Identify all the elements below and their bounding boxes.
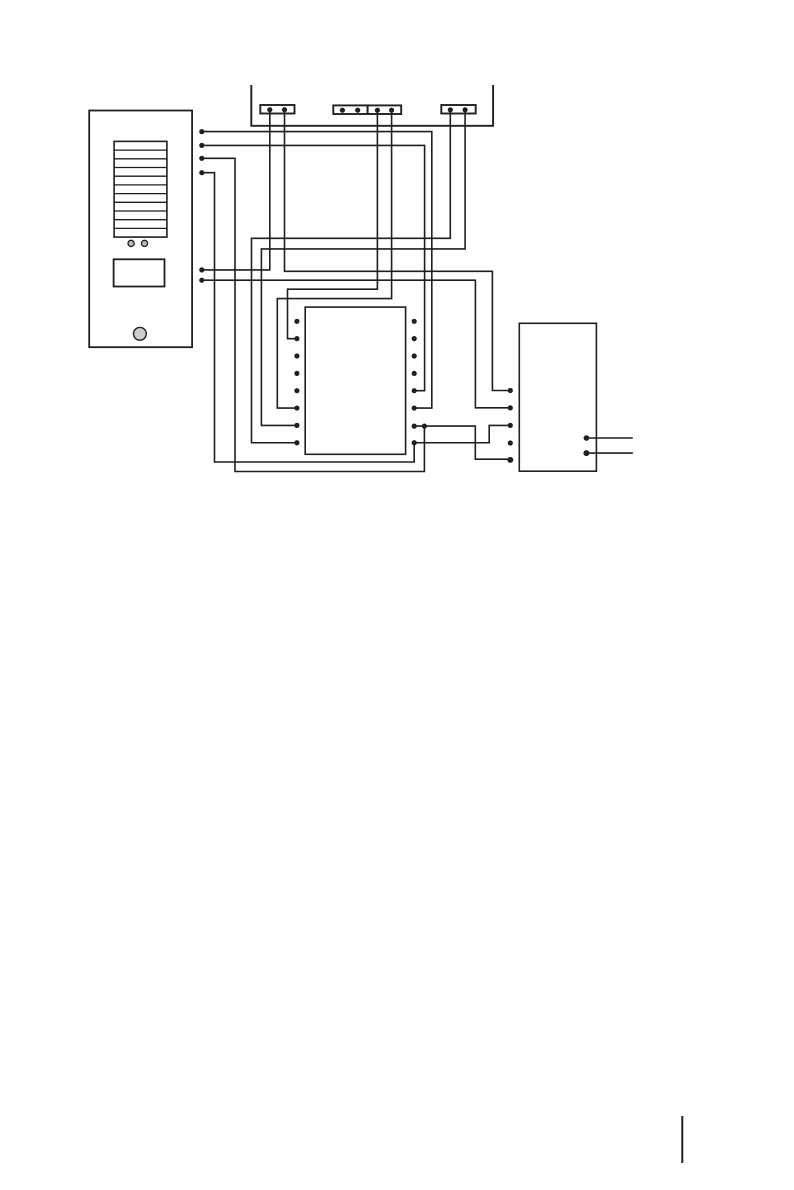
monitor interface box U1 bbox=[305, 307, 405, 454]
U2 pin L2 bbox=[508, 405, 513, 410]
riser enclosure bracket (open-top) bbox=[251, 86, 493, 126]
wire TB2 pin3 to U1 pin L2 bbox=[288, 110, 378, 339]
U2 pin L5 bbox=[507, 457, 513, 463]
grille slots bbox=[114, 150, 167, 228]
U2 pin L1 bbox=[508, 388, 513, 393]
U1 pin L3 bbox=[294, 353, 299, 358]
TB2 pin 3 bbox=[375, 108, 380, 113]
TB1 pin 1 bbox=[267, 107, 272, 112]
wire door pin5 to TB1 pin1 bbox=[202, 110, 270, 270]
wire U2 output pin R2 bbox=[586, 452, 632, 454]
U1 pin R6 bbox=[412, 405, 417, 410]
terminal strip TB2 (right half) bbox=[368, 105, 402, 114]
terminal strip TB1 bbox=[260, 105, 294, 114]
door pin 2 bbox=[199, 143, 204, 148]
wire door pin1 to U1 pin R6 bbox=[202, 132, 432, 408]
LED indicator right bbox=[141, 240, 147, 246]
TB1 pin 2 bbox=[282, 107, 287, 112]
TB3 pin 1 bbox=[448, 107, 453, 112]
wire junction to U2 pin L5 bbox=[424, 426, 510, 459]
door pin 4 bbox=[199, 170, 204, 175]
TB2 pin 4 bbox=[389, 108, 394, 113]
LED indicator left bbox=[128, 240, 134, 246]
U1 pin L7 bbox=[294, 423, 299, 428]
U1 pin L1 bbox=[294, 319, 299, 324]
U1 pin R7 bbox=[412, 424, 417, 429]
speaker grille bbox=[114, 141, 167, 237]
power supply box U2 bbox=[519, 323, 596, 471]
U1 pin L4 bbox=[294, 371, 299, 376]
U1 pin R3 bbox=[412, 353, 417, 358]
wire U1 pin R8 to U2 pin L3 bbox=[414, 425, 510, 442]
TB2 pin 2 bbox=[355, 108, 360, 113]
U1 pin R1 bbox=[412, 319, 417, 324]
call button bbox=[134, 327, 147, 340]
U1 pin L2 bbox=[294, 336, 299, 341]
wire TB3 pin1 to U1 pin L8 bbox=[252, 110, 451, 443]
wire U2 output pin R1 bbox=[586, 437, 632, 439]
wire TB1 pin2 to U2 pin L1 bbox=[285, 110, 511, 391]
U1 pin L5 bbox=[294, 388, 299, 393]
U1 pin L8 bbox=[294, 440, 299, 445]
footer separator bbox=[681, 1117, 683, 1162]
U2 pin L3 bbox=[508, 423, 513, 428]
door pin 5 bbox=[199, 267, 204, 272]
U1 pin R5 bbox=[412, 388, 417, 393]
terminal strip TB2 (left half) bbox=[333, 105, 367, 114]
wire door pin3 to junction under U1 bbox=[202, 158, 425, 471]
wire door pin2 to U1 pin R5 bbox=[202, 145, 425, 390]
door pin 1 bbox=[199, 129, 204, 134]
wire TB3 pin2 to U1 pin L7 bbox=[261, 110, 465, 426]
wire door pin4 to U1 pin R8 bbox=[202, 173, 414, 462]
TB3 pin 2 bbox=[463, 107, 468, 112]
junction door pin3 net bbox=[422, 424, 427, 429]
U1 pin L6 bbox=[294, 405, 299, 410]
wire door pin6 to U2 pin L2 bbox=[202, 280, 511, 408]
U2 pin L4 bbox=[508, 440, 513, 445]
door pin 6 bbox=[199, 278, 204, 283]
wire TB2 pin4 to U1 pin L6 bbox=[277, 110, 391, 408]
U1 pin R4 bbox=[412, 371, 417, 376]
U2 pin R2 bbox=[583, 450, 589, 456]
name plate bbox=[114, 259, 165, 286]
terminal strip TB3 bbox=[441, 105, 475, 114]
U2 pin R1 bbox=[584, 435, 590, 441]
TB2 pin 1 bbox=[340, 108, 345, 113]
door pin 3 bbox=[199, 156, 204, 161]
door station outline bbox=[89, 111, 192, 348]
U1 pin R8 bbox=[412, 440, 417, 445]
U1 pin R2 bbox=[412, 336, 417, 341]
